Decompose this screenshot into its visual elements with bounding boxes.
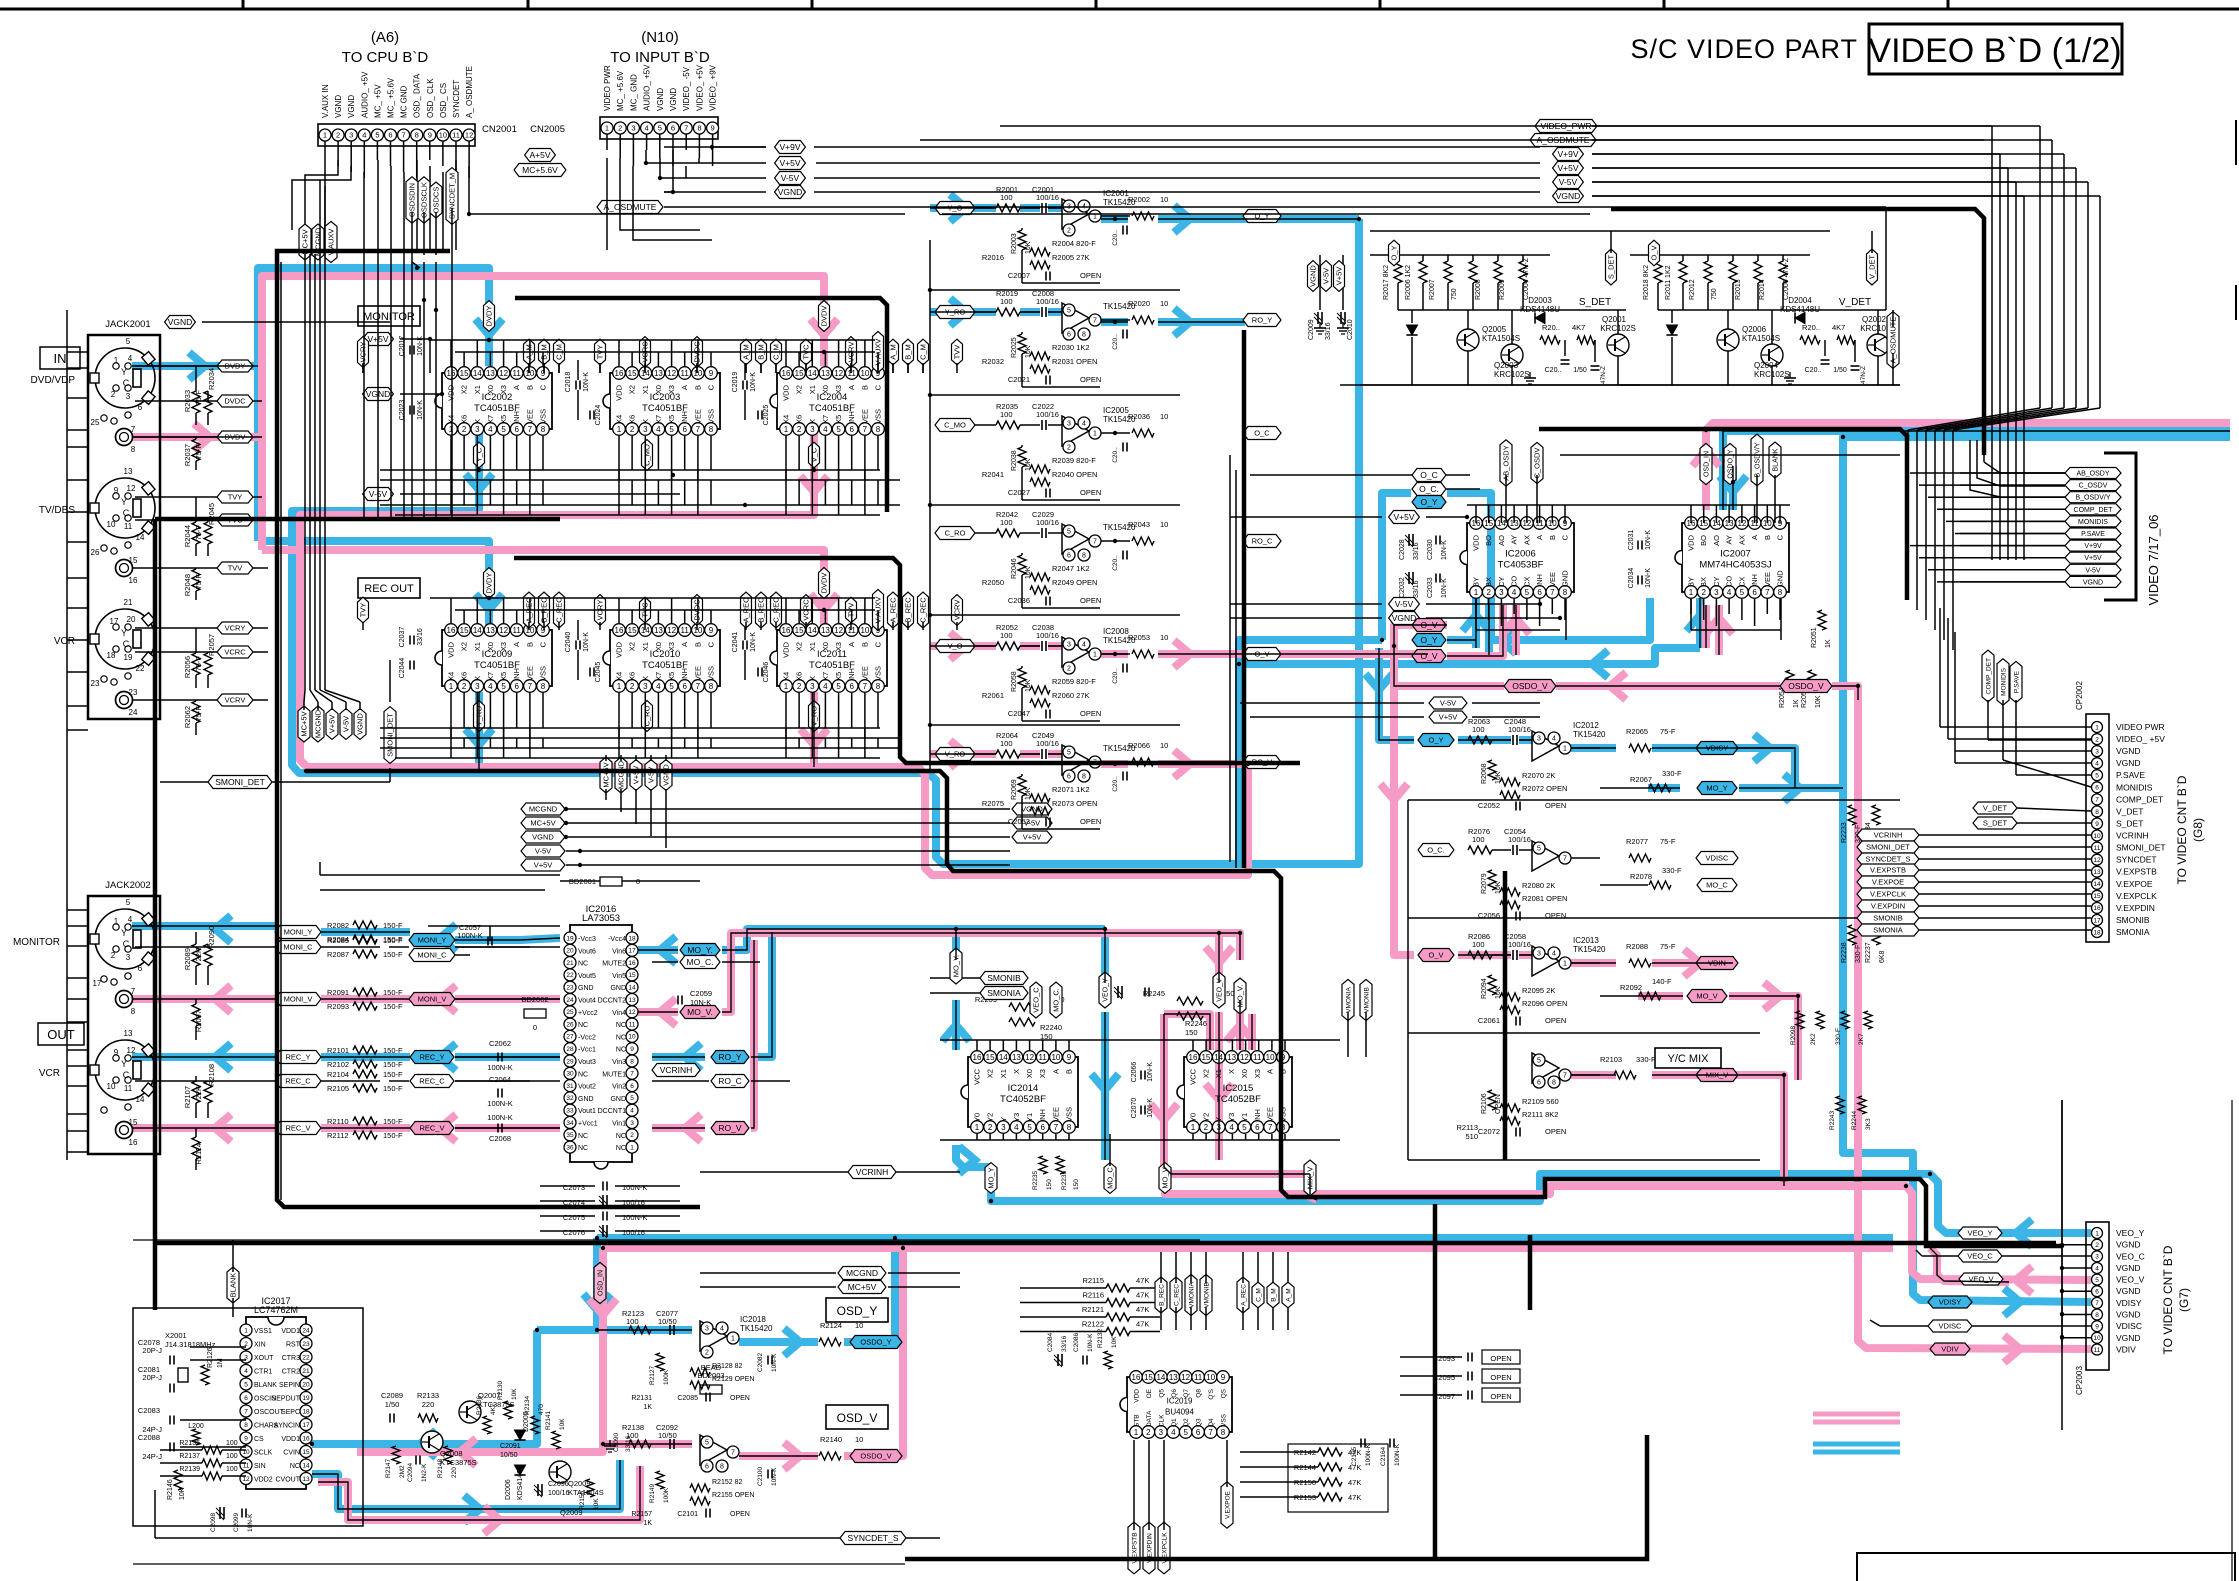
svg-text:1K: 1K [1793,699,1800,708]
svg-text:100/16: 100/16 [622,1228,645,1237]
svg-text:MC+5.6V: MC+5.6V [522,165,558,175]
svg-text:A_M: A_M [889,344,898,359]
svg-text:R2104: R2104 [327,1070,349,1079]
svg-text:100/16: 100/16 [1036,297,1059,306]
svg-text:X7: X7 [654,672,663,681]
net tag V_DET vertical [1867,231,1878,285]
svg-text:BO: BO [1484,535,1493,546]
svg-text:33/16: 33/16 [1413,580,1420,598]
svg-text:A_REC: A_REC [1240,1284,1247,1306]
svg-text:VGND: VGND [2116,1286,2141,1296]
svg-text:(G7): (G7) [2177,1288,2191,1312]
svg-text:C2096: C2096 [548,1481,569,1488]
net tag VDISY mid [1739,747,1795,749]
net tag SYNCDET_S cp2002 [1857,853,2091,865]
svg-text:X0: X0 [1025,1069,1034,1078]
crystal X2001 14.31818MHz [138,1331,246,1393]
resistor R2085/R2087 150-F [323,933,403,959]
svg-text:150: 150 [1073,1179,1080,1190]
svg-text:4: 4 [362,131,366,140]
svg-text:CO: CO [1510,576,1519,587]
svg-text:33/16: 33/16 [417,628,424,646]
svg-text:510: 510 [1465,1132,1478,1141]
net tag VCRINH cp2002 [1857,829,2091,841]
svg-text:20P-J: 20P-J [142,1346,162,1355]
svg-text:X1: X1 [641,642,650,651]
svg-text:VCRINH: VCRINH [1874,831,1903,840]
capacitor C2010 33/16 [1337,312,1354,340]
svg-text:13: 13 [124,1029,133,1038]
svg-text:R2005 27K: R2005 27K [1052,253,1090,262]
svg-text:4K7: 4K7 [1832,323,1845,332]
svg-text:10: 10 [1051,1053,1060,1062]
svg-text:REC_Y: REC_Y [419,1053,444,1062]
label TO VIDEO CNT B`D (G7) [2161,1245,2191,1354]
net tag V+5V mid-right [1012,831,1052,843]
svg-text:X: X [1012,1069,1021,1074]
svg-text:1/50: 1/50 [385,1400,400,1409]
wire pink CVOUT loop [318,1466,640,1520]
svg-text:R2007: R2007 [1429,279,1436,300]
svg-text:12: 12 [667,626,676,635]
svg-text:TK15420: TK15420 [740,1324,773,1333]
svg-text:C2018: C2018 [565,372,572,393]
svg-text:C2164: C2164 [1380,1446,1387,1466]
svg-text:150-F: 150-F [383,988,403,997]
net tag MC+5V vertical jack [298,702,310,742]
svg-text:MCGND: MCGND [529,805,558,814]
svg-text:X2: X2 [1201,1069,1210,1078]
svg-text:10N-K: 10N-K [1087,1333,1094,1352]
wire pink RO_V line IC2016 [652,940,754,1128]
svg-text:VDD: VDD [1134,1389,1141,1403]
svg-text:MONI_Y: MONI_Y [418,936,447,945]
svg-text:C2072: C2072 [1478,1127,1500,1136]
svg-text:5: 5 [1067,308,1071,315]
net tag TVV monitor select [952,339,963,365]
svg-text:14: 14 [1156,1373,1165,1382]
svg-text:R2094: R2094 [1481,978,1488,999]
svg-text:V-5V: V-5V [781,173,800,183]
svg-text:Q2002: Q2002 [1862,315,1887,324]
capacitor C2059 10N-K [678,989,712,1007]
op-amp IC2015 TC4052BF [1177,1051,1292,1134]
svg-text:CN2005: CN2005 [530,124,565,135]
svg-text:V.EXPSTB: V.EXPSTB [2116,867,2157,877]
wire fan to OSD tags [1970,440,2065,497]
svg-text:A: A [847,385,856,390]
svg-text:C_RO: C_RO [945,529,966,538]
svg-text:TC4053BF: TC4053BF [1498,560,1544,571]
svg-text:15: 15 [2093,893,2101,900]
svg-text:VEO_C: VEO_C [1967,1252,1993,1261]
svg-text:OPEN: OPEN [1080,375,1101,384]
svg-text:11: 11 [629,1021,636,1028]
svg-text:VMONIA: VMONIA [1345,987,1352,1013]
svg-text:B: B [1763,535,1772,540]
net tag V.EXPOE cp2002 [1857,876,2091,888]
net tag MO_C below IC2014 [1104,1134,1116,1193]
svg-text:12: 12 [1181,1373,1190,1382]
svg-text:8: 8 [720,1464,724,1471]
svg-text:R2013: R2013 [1735,279,1742,300]
svg-text:X6: X6 [628,415,637,424]
svg-text:11: 11 [1253,1053,1262,1062]
svg-text:REC_C: REC_C [285,1077,311,1086]
svg-text:V.EXPDIN: V.EXPDIN [2116,903,2155,913]
svg-text:O_V: O_V [1650,245,1659,260]
svg-text:R2149: R2149 [649,1483,656,1503]
resistor R2107 22K [183,1076,203,1118]
svg-text:4: 4 [128,354,133,363]
svg-text:2K7: 2K7 [1858,1033,1865,1045]
svg-text:Y: Y [121,928,127,938]
wire blue REC_Y line [132,1056,560,1058]
svg-text:1: 1 [731,1336,735,1343]
capacitor C2073-C2076 stack [540,1182,680,1239]
svg-text:O_Y: O_Y [1428,736,1443,745]
svg-text:Y2: Y2 [1201,1113,1210,1122]
svg-text:8: 8 [131,445,136,454]
svg-text:100/16: 100/16 [1508,940,1531,949]
svg-text:O_V: O_V [1428,951,1443,960]
svg-text:MC_ +5V: MC_ +5V [373,84,382,118]
svg-text:V-5V: V-5V [1440,699,1456,708]
svg-text:5: 5 [2095,773,2099,780]
svg-text:10N-K: 10N-K [247,1513,254,1532]
svg-text:10K: 10K [1025,679,1032,692]
net tag VGND [775,186,806,199]
svg-text:VIDEO_ +5V: VIDEO_ +5V [695,64,704,111]
wire pink MONI_V line [132,998,560,1000]
svg-text:S/C VIDEO PART: S/C VIDEO PART [1630,34,1858,64]
svg-text:150-F: 150-F [383,1046,403,1055]
svg-text:V+9V: V+9V [1557,149,1578,159]
svg-text:11: 11 [848,369,857,378]
svg-text:R2131: R2131 [631,1395,652,1402]
net tag V.AUXV monitor select [873,331,884,373]
svg-text:IC2004: IC2004 [817,392,848,403]
net tag V+5V mid-left [521,859,565,871]
svg-text:C_REC: C_REC [919,597,928,623]
svg-text:R2036: R2036 [1128,412,1150,421]
svg-text:C: C [707,641,716,647]
svg-text:18: 18 [302,1408,310,1415]
thick bus monitor top [515,298,887,512]
net tag VIDEO_PWR [1535,120,1597,133]
svg-text:47K: 47K [1136,1291,1149,1300]
svg-text:Vout3: Vout3 [578,1059,596,1066]
svg-text:VGND: VGND [2116,758,2141,768]
svg-text:150-F: 150-F [383,1131,403,1140]
svg-text:8: 8 [2095,809,2099,816]
svg-text:VEO_Y: VEO_Y [1967,1229,1992,1238]
svg-text:OSD_ CS: OSD_ CS [439,83,448,118]
capacitor C2093/C2095/C2097 OPEN stack [1400,1350,1520,1402]
net tag TVV [217,562,253,574]
svg-text:OPEN: OPEN [1545,1127,1566,1136]
svg-text:REC_V: REC_V [419,1124,444,1133]
capacitor C2009 33/16 [1308,312,1332,340]
svg-text:CX: CX [1737,577,1746,587]
svg-text:47K: 47K [1136,1320,1149,1329]
svg-text:MONI_Y: MONI_Y [284,928,313,937]
diode D2005 KDS4148U [514,1411,530,1440]
svg-text:11: 11 [681,369,690,378]
svg-text:R2069: R2069 [1011,779,1018,800]
net tag V.EXPSTB cp2002 [1857,864,2091,876]
net tag MC+5V vertical [299,224,311,260]
svg-text:R2127: R2127 [649,1365,656,1385]
svg-text:VEE: VEE [1548,572,1557,587]
net tag VGND right [1553,190,1584,203]
net tag SYNCDET_S [155,1532,940,1545]
svg-text:VCR: VCR [54,636,75,647]
svg-text:VCRV: VCRV [953,600,962,621]
svg-text:R2115: R2115 [1082,1276,1104,1285]
svg-text:19: 19 [124,653,133,662]
svg-text:10/50: 10/50 [658,1317,677,1326]
net tag OSDCS vertical [430,182,442,218]
wire pink V_O stage [930,646,1428,654]
svg-text:5: 5 [126,898,131,907]
svg-text:12: 12 [1240,1053,1249,1062]
svg-text:R2109 560: R2109 560 [1522,1097,1559,1106]
svg-text:CTR3: CTR3 [282,1355,300,1362]
ferrite bead BD2003 [697,1363,724,1394]
svg-text:X5: X5 [834,672,843,681]
svg-text:150-F: 150-F [383,950,403,959]
svg-text:100K: 100K [663,1487,670,1503]
svg-text:R2085: R2085 [327,936,349,945]
svg-text:33/16: 33/16 [1413,542,1420,560]
svg-text:75-F: 75-F [194,525,203,541]
svg-text:R2155 OPEN: R2155 OPEN [712,1492,754,1499]
svg-text:MONIDIS: MONIDIS [2116,782,2153,792]
svg-text:R2030 1K2: R2030 1K2 [1052,343,1090,352]
wire blue IC2007 loop [1700,431,2230,648]
svg-text:13: 13 [486,369,495,378]
svg-text:GND: GND [1561,570,1570,587]
svg-text:100: 100 [1000,631,1013,640]
svg-text:9: 9 [2095,821,2099,828]
svg-text:20: 20 [127,615,136,624]
svg-text:11: 11 [1194,1373,1203,1382]
svg-text:4: 4 [1014,1123,1019,1132]
svg-text:20: 20 [566,948,574,955]
svg-text:15: 15 [129,1118,138,1127]
svg-text:OPEN: OPEN [730,1511,750,1518]
svg-text:VGND: VGND [356,713,365,735]
net tag A_M monitor select [524,339,535,373]
svg-text:16: 16 [782,369,791,378]
svg-text:2: 2 [336,131,340,140]
svg-text:R20..: R20.. [1802,323,1820,332]
capacitor C2017 10N-K [399,336,424,357]
svg-text:V-5V: V-5V [1322,268,1331,284]
svg-text:VGND: VGND [1392,613,1417,623]
svg-text:24: 24 [129,708,138,717]
net tag V+9V video bracket [1960,540,2121,551]
svg-text:P.SAVE: P.SAVE [2013,670,2020,693]
resistor R2132 10K [1097,1328,1118,1369]
thick bus right bottom verticals [1435,871,1530,1559]
svg-text:Q1: Q1 [1171,1418,1178,1427]
svg-text:C20..: C20.. [1805,367,1822,374]
resistor R2054 1K [1779,670,1800,708]
svg-text:150-F: 150-F [383,1117,403,1126]
svg-text:B: B [860,642,869,647]
svg-text:X: X [641,419,650,424]
ferrite bead BD2002 [521,995,548,1032]
svg-text:TO INPUT B`D: TO INPUT B`D [610,49,710,66]
svg-text:IC2009: IC2009 [482,649,513,660]
svg-text:Y: Y [999,1117,1008,1122]
svg-text:C2009: C2009 [1308,319,1315,340]
svg-text:3: 3 [475,682,480,691]
svg-text:V-5V: V-5V [342,716,351,732]
svg-text:75-F: 75-F [194,390,203,406]
svg-text:VGND: VGND [669,88,678,111]
svg-text:V.EXPOE: V.EXPOE [1224,1490,1231,1519]
svg-text:17: 17 [2093,917,2101,924]
svg-text:22: 22 [136,664,145,673]
sheet top border [0,0,2239,9]
svg-text:R2139: R2139 [179,1466,200,1473]
svg-text:2: 2 [1067,228,1071,235]
resistor R2048 75-F [183,568,203,600]
svg-text:150: 150 [1185,1028,1198,1037]
thick bus SYNCDET_M left [155,519,560,1243]
net tag C_MO below IC2003 [642,440,653,471]
svg-text:C2030: C2030 [1427,539,1434,560]
svg-text:10N-K: 10N-K [583,632,590,652]
wire monitor bank pin rails [363,340,957,480]
net tag MC+5V OSD [700,1281,960,1294]
svg-text:C_MO: C_MO [944,421,966,430]
svg-text:1: 1 [617,682,622,691]
svg-text:16: 16 [615,369,624,378]
svg-text:V+5V: V+5V [1023,833,1042,842]
svg-text:2: 2 [462,425,467,434]
svg-text:3: 3 [631,124,635,133]
svg-text:Vout4: Vout4 [578,998,596,1005]
svg-text:TVV: TVV [953,345,962,360]
svg-text:TO VIDEO CNT B`D: TO VIDEO CNT B`D [2161,1245,2175,1354]
svg-text:IC2014: IC2014 [1008,1083,1039,1094]
svg-text:14: 14 [808,626,817,635]
net tag AB_OSDY video bracket [1960,468,2121,479]
svg-text:R2006 1K2: R2006 1K2 [1405,265,1412,300]
capacitor C2046 10N-K [758,662,770,683]
svg-text:10: 10 [1160,741,1168,750]
svg-text:V+5V: V+5V [1439,713,1458,722]
connector CN2001 [318,66,517,146]
svg-text:6K8: 6K8 [1879,950,1886,963]
net tag V.AUXV vertical [325,221,337,262]
svg-text:P.SAVE: P.SAVE [2081,531,2105,538]
net tag REC_C [275,1075,321,1088]
svg-text:KTA1504S: KTA1504S [1482,334,1520,343]
svg-text:OPEN: OPEN [1545,1016,1566,1025]
capacitor C2083/C2088 24P-J [138,1406,246,1461]
svg-text:10: 10 [1160,520,1168,529]
svg-text:X: X [808,676,817,681]
svg-text:X7: X7 [486,672,495,681]
svg-text:12: 12 [834,626,843,635]
svg-text:4: 4 [720,1326,724,1333]
svg-text:13: 13 [1012,1053,1021,1062]
svg-text:6: 6 [1537,588,1542,597]
net tag SMONIA [930,987,1028,1000]
svg-text:3: 3 [126,953,131,962]
svg-text:2: 2 [988,1123,993,1132]
wire blue bottom to op column [0,0,1,1]
net tag C_RO below IC2010 [642,701,653,732]
svg-text:15: 15 [1201,1053,1210,1062]
svg-text:COMP_DET: COMP_DET [1985,658,1992,694]
svg-text:1K: 1K [643,1404,652,1411]
op-amp IC2010 TC4051BF [603,624,720,693]
svg-text:11: 11 [1039,1053,1048,1062]
svg-text:30: 30 [566,1071,574,1078]
net tag SMONIB cp2002 [1857,912,2091,924]
svg-text:R2140: R2140 [820,1435,842,1444]
svg-text:15: 15 [628,369,637,378]
svg-text:X1: X1 [473,642,482,651]
svg-text:11: 11 [848,626,857,635]
transistor Q2009 KTA1504S [549,1461,604,1497]
net tag V_C below IC2004 [809,442,820,468]
label box MONITOR [358,306,420,326]
svg-text:SYNCDET: SYNCDET [452,80,461,118]
svg-text:1: 1 [1191,1123,1196,1132]
op-amp IC2003 TC4051BF [603,367,720,436]
svg-text:X1: X1 [641,385,650,394]
svg-text:CTR1: CTR1 [254,1369,272,1376]
svg-text:330-F: 330-F [1835,1028,1842,1045]
svg-text:R2101: R2101 [327,1046,349,1055]
svg-text:C: C [874,384,883,390]
net tag V+5V [775,157,806,170]
net tag DVDY monitor drop [484,301,495,332]
svg-text:Vin6: Vin6 [612,948,626,955]
svg-text:X3: X3 [1253,1069,1262,1078]
net tag MIX_V below IC2015 [1304,1160,1316,1196]
svg-text:V.EXPSTB: V.EXPSTB [1870,866,1906,875]
net tag MO_Y below IC2014 [985,1163,997,1194]
svg-text:100: 100 [1472,725,1485,734]
svg-text:4: 4 [630,1108,634,1115]
svg-text:25: 25 [566,1009,574,1016]
resistor R2091/R2093 150-F [323,985,403,1011]
svg-text:R2080 2K: R2080 2K [1522,881,1555,890]
svg-text:A: A [512,642,521,647]
svg-text:SYNCIN: SYNCIN [274,1423,300,1430]
svg-text:LA73053: LA73053 [582,913,620,924]
svg-text:8: 8 [709,682,714,691]
svg-text:X: X [473,676,482,681]
svg-text:11: 11 [124,522,133,531]
svg-text:VCR: VCR [39,1068,60,1079]
net tag A_REC rec select [741,592,752,628]
net tag C_REC rec select [918,592,929,628]
svg-text:6: 6 [514,682,519,691]
net tag A_REC/C_M/B_M/A_M cluster [1237,1252,1294,1330]
svg-text:VSS: VSS [539,409,548,424]
net tag MONI_Y right [409,934,455,947]
svg-text:V-5V: V-5V [1395,599,1414,609]
